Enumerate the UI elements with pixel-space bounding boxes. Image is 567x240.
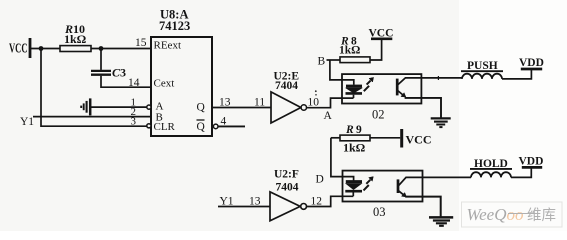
wire VCC to junction [30,48,60,50]
inverter U2:F 7404 [270,169,307,221]
ic U8:A 74123 [147,8,218,137]
ground (below O2) [431,118,451,127]
svg-text:VDD: VDD [519,57,544,69]
wire Y1 to pin B (pin 2) [33,116,151,118]
power VCC (above R8) [369,28,394,40]
wire C3 to pin 14 [101,76,151,87]
inductor PUSH [461,60,503,79]
svg-text:A: A [324,110,333,122]
wire Y1 to inverter pin 13 [218,206,270,208]
LED in O3 [345,182,362,197]
svg-text:VCC: VCC [9,41,28,56]
junction R10/C3 [99,46,104,51]
wire O3 emitter to ground [405,197,441,217]
wire HOLD to VDD [511,168,531,177]
wire node B to R8 [327,59,341,61]
svg-text:R 9: R 9 [345,124,362,136]
svg-text:Q: Q [197,102,206,114]
wire VCC node down to CLR pin 3 [41,49,147,127]
power VCC (right of R9) [402,129,432,148]
capacitor C3 [91,49,126,80]
svg-text:C3: C3 [112,66,126,80]
optocoupler O2 box [342,74,421,121]
svg-text:10: 10 [308,97,320,109]
svg-text:REext: REext [154,40,182,52]
svg-text:11: 11 [254,97,265,109]
wire ground to pin A (pin 1) [91,106,147,108]
wire R10 to pin 15 [91,48,151,50]
resistor R9 [331,124,370,155]
svg-text:15: 15 [135,37,147,49]
svg-text:WeeQoo: WeeQoo [467,205,524,224]
phototransistor in O3 [398,177,423,197]
inverter U2:E 7404 [271,71,306,124]
wire O3 collector to HOLD coil [423,176,472,178]
svg-text:VCC: VCC [406,133,432,147]
power VCC (left) [9,38,30,58]
wire node B down to O2 LED anode [330,60,354,85]
svg-text:PUSH: PUSH [467,60,498,72]
svg-text:B: B [318,56,326,68]
tick artifact on wire [437,76,439,80]
light arrow in O2 [364,77,374,91]
svg-text:13: 13 [249,196,261,208]
svg-text:D: D [316,174,324,186]
svg-text:74123: 74123 [159,19,190,33]
speck artifact [315,90,317,95]
junction VCC node [39,46,44,51]
svg-text:7404: 7404 [276,182,299,194]
wire Qbar stub (pin 4) [218,125,245,127]
watermark WeeQoo [462,202,563,227]
inductor HOLD [470,158,512,177]
resistor R10 [60,22,91,52]
svg-text:Cext: Cext [154,78,175,90]
svg-text:Y1: Y1 [20,116,34,128]
wire O2 collector to PUSH coil [421,77,462,79]
wire R9 to VCC [370,137,400,139]
wire Q (pin 13) to inverter pin 11 [212,107,271,109]
svg-text:14: 14 [128,77,140,89]
optocoupler O3 box [343,171,423,219]
svg-text:VDD: VDD [519,156,544,168]
wire PUSH to VDD [502,70,531,79]
svg-text:03: 03 [373,205,386,219]
svg-text:U2:F: U2:F [274,169,299,181]
resistor R8 [339,36,370,63]
phototransistor in O2 [397,78,421,97]
svg-text:Q: Q [197,121,206,133]
power VDD (top right) [519,57,544,69]
light arrow in O3 [364,177,374,191]
svg-text:7404: 7404 [275,80,298,92]
ground (rotated, at pin 1) [81,98,90,115]
svg-text:CLR: CLR [154,121,176,133]
wire node D down to O3 LED anode [331,138,354,182]
wire U2:F output to O3 LED cathode [307,196,354,206]
svg-text:维库: 维库 [527,207,556,224]
svg-text:1kΩ: 1kΩ [343,141,366,155]
svg-text:1kΩ: 1kΩ [64,32,87,46]
LED in O2 [346,86,363,98]
wire U2:E output to O2 LED cathode [307,98,354,108]
ground (below O3) [429,217,453,225]
svg-text:02: 02 [372,107,385,121]
wire O2 emitter to ground [405,98,441,118]
power VDD (bottom right) [519,156,544,168]
wire R8 to VCC [370,40,382,60]
svg-text:1kΩ: 1kΩ [339,45,360,57]
